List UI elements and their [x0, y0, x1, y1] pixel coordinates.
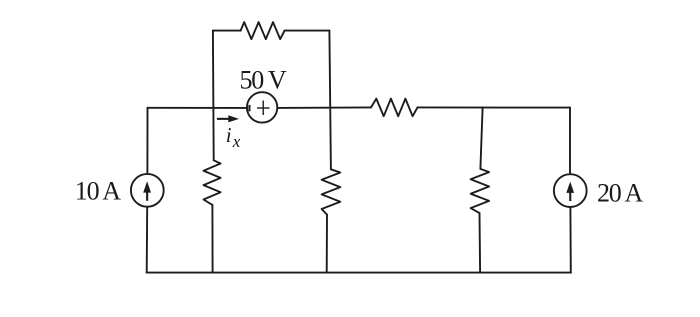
wire branch C upper — [480, 108, 482, 169]
wire top loop top-right segment — [285, 30, 330, 32]
wire middle left segment — [148, 107, 248, 109]
resistor R1 (top loop) — [241, 22, 285, 39]
wire middle right segment — [418, 106, 571, 108]
current source I2 20A circle — [554, 174, 587, 207]
wire branch B lower — [326, 215, 328, 273]
resistor R5 (branch C vertical) — [471, 169, 490, 213]
svg-text:x: x — [232, 132, 241, 151]
svg-text:10 A: 10 A — [75, 176, 121, 205]
ix current arrow — [217, 115, 239, 122]
wire top loop left vertical (node A to top) — [212, 31, 215, 161]
wire branch C lower — [479, 213, 482, 273]
svg-text:i: i — [226, 123, 232, 147]
wire right rail lower — [569, 207, 571, 273]
voltage source V1 50V — [247, 92, 277, 122]
svg-text:20 A: 20 A — [597, 179, 643, 208]
resistor R4 (middle horizontal) — [371, 99, 418, 117]
wire branch A lower — [211, 205, 213, 273]
voltage source plus sign — [257, 101, 270, 116]
wire left rail lower — [146, 207, 149, 272]
wire bottom rail — [147, 272, 571, 274]
wire right rail upper — [569, 108, 571, 174]
wire top loop right vertical (top to node B) — [329, 31, 331, 170]
svg-text:50 V: 50 V — [240, 66, 287, 95]
wire left rail upper — [146, 108, 148, 174]
voltage source minus terminal tick — [248, 105, 250, 111]
wire middle from V1 to R4 — [277, 106, 371, 109]
wire top loop top-left segment — [213, 30, 241, 32]
current source I1 10A circle — [131, 174, 164, 207]
current source I2 arrow — [566, 182, 574, 202]
resistor R2 (branch A vertical) — [204, 160, 221, 205]
current source I1 arrow — [143, 181, 151, 201]
resistor R3 (branch B vertical) — [322, 169, 341, 214]
